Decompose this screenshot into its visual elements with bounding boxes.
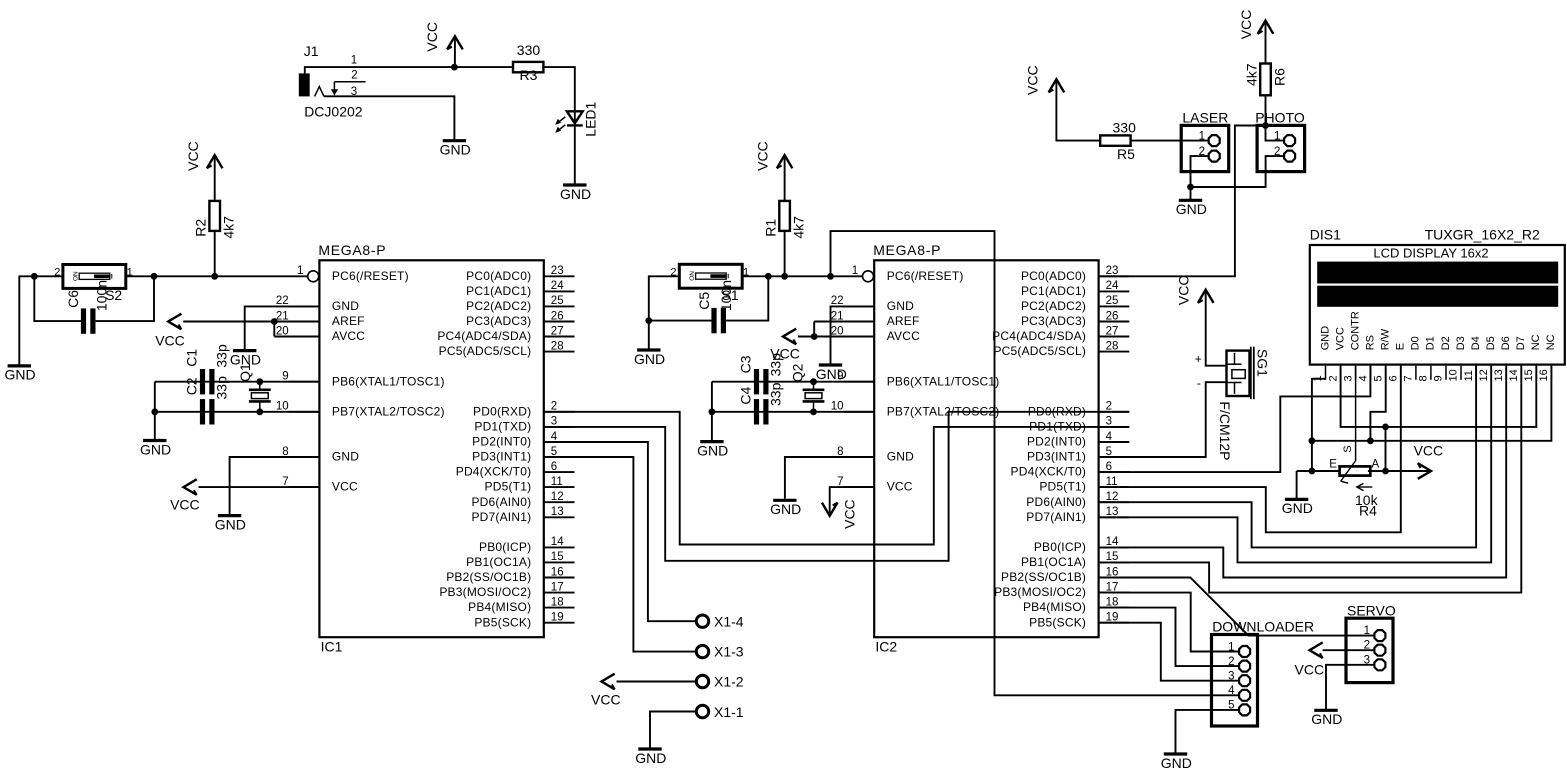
svg-text:R5: R5 [1117,146,1135,162]
IC2 pin 1 PC6(/RESET) (inverted reset pin) [859,275,863,277]
wire LASER pin2 net to PHOTO pin2 [1191,156,1284,187]
svg-text:VCC: VCC [591,691,621,707]
wire IC2 PB2 SS (pin16) diagonal to SERVO pin1 [1099,578,1374,636]
wire IC2 AVCC (pin20) to VCC arrow [798,336,874,338]
wire junction to C5 [649,320,713,322]
svg-text:GND: GND [1311,711,1342,727]
svg-text:PD2(INT0): PD2(INT0) [472,435,531,449]
svg-text:PD1(TXD): PD1(TXD) [1029,420,1086,434]
svg-text:AVCC: AVCC [332,329,365,343]
wire IC1 PD1 to IC2 PD0 (crossover) [544,412,1130,561]
connector DOWNLOADER body [1212,635,1258,727]
node RESET1 junction at R2 [211,273,218,280]
svg-text:DOWNLOADER: DOWNLOADER [1212,619,1314,635]
DOWNLOADER pin 3 [1212,680,1239,682]
svg-text:1: 1 [1199,131,1205,143]
svg-text:DIS1: DIS1 [1310,227,1341,243]
svg-text:19: 19 [551,612,564,624]
IC2 pin 10 PB7(XTAL2/TOSC2) [844,411,875,413]
svg-text:20: 20 [831,325,844,337]
IC1 pin 12 PD6(AIN0) [544,501,575,503]
svg-text:X1-1: X1-1 [714,704,744,720]
DIS1 pin 5 R/W [1385,366,1387,380]
svg-text:ON: ON [72,271,79,281]
svg-text:PD3(INT1): PD3(INT1) [472,450,531,464]
svg-text:22: 22 [831,295,844,307]
resistor R1 4k7 [779,201,790,231]
wire GND net H2: pin1/pin5/pin16 [1312,366,1552,441]
IC1 pin 2 PD0(RXD) [544,411,575,413]
svg-text:23: 23 [551,265,564,277]
IC2 pin 8 GND [844,456,875,458]
svg-text:C1: C1 [183,349,199,367]
node junction R6/PHOTO pin1/ADC wire [1262,122,1269,129]
svg-text:PB4(MISO): PB4(MISO) [1023,600,1086,614]
svg-text:TUXGR_16X2_R2: TUXGR_16X2_R2 [1425,227,1540,243]
svg-text:7: 7 [837,476,843,488]
IC1 pin 23 PC0(ADC0) [544,275,575,277]
power symbol VCC above R2 [207,155,223,168]
svg-text:15: 15 [1523,369,1535,381]
wire VCC to R2 [214,158,216,201]
wire junction to GND [19,276,34,366]
svg-text:4k7: 4k7 [221,216,237,239]
DIS1 pin 11 D4 [1475,366,1477,380]
IC2 pin 23 PC0(ADC0) [1099,275,1130,277]
svg-text:PC2(ADC2): PC2(ADC2) [466,299,531,313]
svg-text:10: 10 [1448,369,1460,381]
svg-text:4: 4 [1106,431,1113,443]
svg-text:28: 28 [551,340,564,352]
svg-text:R6: R6 [1272,68,1288,86]
wire IC2 PD6 (pin12) to LCD D4 [1099,366,1477,548]
IC2 pin 14 PB0(ICP) [1099,546,1130,548]
DOWNLOADER pin 1 [1212,651,1239,653]
svg-text:VCC: VCC [1295,662,1325,678]
svg-text:VCC: VCC [842,499,858,529]
svg-text:DCJ0202: DCJ0202 [304,104,363,120]
svg-text:PD4(XCK/T0): PD4(XCK/T0) [1011,465,1087,479]
svg-text:PB0(ICP): PB0(ICP) [479,540,531,554]
svg-text:2: 2 [1327,375,1339,381]
svg-text:11: 11 [551,476,563,488]
svg-text:6: 6 [1388,375,1400,381]
wire IC2 PD5 (pin11) to LCD E [1099,366,1401,533]
svg-text:C3: C3 [737,355,753,373]
svg-text:13: 13 [551,506,564,518]
svg-text:GND: GND [697,442,728,458]
ground GND at IC2 pin22 [819,363,842,366]
DIS1 pin 9 D2 [1445,366,1447,380]
DOWNLOADER pin 4 [1212,694,1239,696]
svg-text:33p: 33p [213,344,229,368]
J1 switch contact symbol [315,87,324,97]
svg-text:PC5(ADC5/SCL): PC5(ADC5/SCL) [439,344,532,358]
svg-text:27: 27 [551,325,564,337]
svg-text:5: 5 [1372,375,1384,381]
svg-text:24: 24 [551,280,564,292]
svg-text:GND: GND [770,501,801,517]
DIS1 pin 8 D1 [1430,366,1432,380]
crystal Q1 [249,388,271,391]
ground GND below LASER [1179,199,1202,202]
IC2 pin 4 PD2(INT0) [1099,441,1130,443]
svg-text:GND: GND [1161,755,1192,771]
svg-text:4: 4 [1357,375,1369,381]
svg-text:C5: C5 [696,292,712,310]
svg-text:IC2: IC2 [875,639,897,655]
svg-text:X1-2: X1-2 [714,674,744,690]
svg-text:9: 9 [282,371,288,383]
power symbol VCC (top, above J1 node) [447,36,463,49]
svg-text:NC: NC [1530,334,1542,350]
node junction AREF/AVCC IC1 [271,318,278,325]
wire IC1 pin8 GND [230,457,320,514]
IC1 pin 20 AVCC [289,336,320,338]
wire IC1 AVCC (pin20) to AREF net [274,336,319,338]
power symbol VCC (left arrow at IC1 pin7) [184,479,197,495]
node junction C2 row [151,408,158,415]
wire C3/C4 common node down to GND [711,382,713,442]
IC2 pin 2 PD0(RXD) [1099,411,1130,413]
ground GND below S1 pin2 [637,348,660,351]
IC1 pin 26 PC3(ADC3) [544,321,575,323]
svg-text:VCC: VCC [332,480,358,494]
svg-text:D3: D3 [1455,336,1467,350]
svg-text:SG1: SG1 [1255,349,1271,377]
DIS1 black display row 2 [1317,286,1558,307]
svg-text:IC1: IC1 [321,639,343,655]
svg-text:1: 1 [743,267,749,279]
svg-text:VCC: VCC [1238,10,1254,40]
svg-text:12: 12 [551,491,564,503]
wire S2 pin2 to GND branch [34,275,63,277]
svg-text:26: 26 [1106,310,1119,322]
svg-text:PC0(ADC0): PC0(ADC0) [1021,269,1086,283]
wire IC1 pin7 VCC [199,486,320,488]
svg-text:19: 19 [1106,612,1119,624]
svg-text:X1-3: X1-3 [714,644,744,660]
svg-text:14: 14 [1508,369,1520,381]
svg-text:100n: 100n [93,280,109,311]
IC2 pin 26 PC3(ADC3) [1099,321,1130,323]
power symbol VCC (left arrow at IC1 AREF) [168,314,181,330]
svg-text:33p: 33p [213,376,229,400]
svg-text:PB2(SS/OC1B): PB2(SS/OC1B) [1001,570,1086,584]
svg-text:D0: D0 [1410,336,1422,350]
svg-text:E: E [1329,459,1337,471]
svg-text:R2: R2 [193,219,209,237]
svg-text:PC3(ADC3): PC3(ADC3) [1021,314,1086,328]
svg-text:RS: RS [1365,335,1377,350]
power symbol VCC above R5 [1049,79,1065,92]
wire junction to GND [1190,187,1192,200]
svg-text:26: 26 [551,310,564,322]
svg-text:PD3(INT1): PD3(INT1) [1027,450,1086,464]
wire X1-2 to VCC arrow [617,681,697,683]
svg-text:LASER: LASER [1182,110,1228,126]
SERVO pin 1 [1346,635,1374,637]
wire IC2 PD3 (pin5) to SG1 minus [1099,382,1227,457]
svg-text:PD4(XCK/T0): PD4(XCK/T0) [456,465,532,479]
buzzer SG1 body [1227,351,1250,396]
svg-text:LED1: LED1 [583,101,599,136]
svg-text:33p: 33p [767,353,783,377]
wire VCC to R1 [784,158,786,201]
svg-text:8: 8 [1418,375,1430,381]
svg-text:PD1(TXD): PD1(TXD) [474,420,531,434]
ground GND at pot E [1296,471,1298,499]
display DIS1 body [1310,245,1565,365]
svg-text:F/CM12P: F/CM12P [1217,401,1233,460]
IC2 pin 16 PB2(SS/OC1B) [1099,577,1130,579]
svg-text:D4: D4 [1470,336,1482,350]
node RESET2 junction at C5 branch [765,273,772,280]
wire R6 to PHOTO pin1 [1266,95,1284,140]
pad X1-1 [696,705,708,717]
SERVO pin 3 [1346,664,1374,666]
wire IC2 PB1 (pin15) to LCD D7 [1099,366,1522,593]
IC1 pin 6 PD4(XCK/T0) [544,471,575,473]
svg-text:VCC: VCC [887,480,913,494]
svg-text:15: 15 [1106,551,1119,563]
wire IC2 PB5 SCK (pin19) to DOWNLOADER pin3 [1099,623,1239,681]
svg-text:13: 13 [1493,369,1505,381]
IC IC2 MEGA8-P body [874,260,1098,637]
capacitor C5 100n [711,308,716,333]
svg-text:33p: 33p [767,382,783,406]
svg-text:3: 3 [1342,375,1354,381]
svg-text:12: 12 [1106,491,1119,503]
svg-text:-: - [1197,376,1201,390]
svg-text:10: 10 [831,401,844,413]
node VCC junction at J1/R3 [451,64,458,71]
wire C5 to S1 pin1 net [726,276,768,320]
IC1 pin 18 PB4(MISO) [544,607,575,609]
DIS1 pin 3 CONTR [1355,366,1357,380]
svg-text:4k7: 4k7 [1244,63,1260,86]
wire pot A to VCC arrow [1368,470,1429,472]
svg-text:4: 4 [1228,685,1235,697]
svg-text:D7: D7 [1515,336,1527,350]
IC2 pin 3 PD1(TXD) [1099,426,1130,428]
svg-text:330: 330 [1113,120,1137,136]
IC1 pin 16 PB2(SS/OC1B) [544,577,575,579]
diode LED1 [567,111,583,123]
IC1 pin 9 PB6(XTAL1/TOSC1) [289,381,320,383]
node junction C5/GND [645,317,652,324]
wire IC2 PB3 MOSI (pin17) to DOWNLOADER pin1 [1099,593,1239,652]
wire IC2 PD7 (pin13) to LCD D5 [1099,366,1492,563]
IC2 pin 12 PD6(AIN0) [1099,501,1130,503]
wire IC2 AREF (pin21) [814,321,874,323]
ground GND below C3/C4 [700,440,723,443]
capacitor C2 33p [200,399,205,424]
DIS1 pin 1 GND [1325,366,1327,380]
svg-text:AREF: AREF [887,314,920,328]
svg-text:D5: D5 [1485,336,1497,350]
svg-text:2: 2 [1106,401,1112,413]
wire IC2 pin7 VCC [830,487,875,513]
svg-text:PB1(OC1A): PB1(OC1A) [466,555,531,569]
node RESET2 junction at R1 [781,273,788,280]
wire DOWNLOADER pin5 to GND [1176,710,1239,754]
IC1 pin 27 PC4(ADC4/SDA) [544,336,575,338]
svg-text:28: 28 [1106,340,1119,352]
svg-text:D1: D1 [1425,336,1437,350]
capacitor C3 33p [754,369,759,394]
svg-text:8: 8 [837,446,843,458]
IC1 pin 24 PC1(ADC1) [544,290,575,292]
IC1 pin 10 PB7(XTAL2/TOSC2) [289,411,320,413]
power symbol VCC (down arrow at IC2 pin7) [822,503,838,516]
svg-text:NC: NC [1545,334,1557,350]
switch S2 body [63,265,126,289]
svg-text:330: 330 [517,42,541,58]
svg-text:VCC: VCC [424,22,440,52]
svg-text:3: 3 [1228,671,1234,683]
IC2 pin 13 PD7(AIN1) [1099,516,1130,518]
svg-text:GND: GND [887,450,914,464]
wire R1 to IC2 reset net [784,231,786,276]
wire SG1 plus to VCC [1206,292,1227,366]
svg-text:2: 2 [1228,656,1234,668]
svg-text:PC5(ADC5/SCL): PC5(ADC5/SCL) [993,344,1086,358]
svg-text:PD0(RXD): PD0(RXD) [473,404,531,418]
svg-text:16: 16 [1538,369,1550,381]
power symbol VCC above SG1 [1198,290,1214,303]
node junction Q1 top [256,378,263,385]
svg-text:5: 5 [551,446,557,458]
wire IC2 XTAL2 row (pin10) to C4/Q2 [712,411,874,413]
svg-text:14: 14 [1106,536,1119,548]
svg-text:GND: GND [140,441,171,457]
svg-text:16: 16 [551,566,564,578]
wire VCC to R6 [1265,23,1267,63]
IC2 pin 5 PD3(INT1) [1099,456,1130,458]
IC2 pin 28 PC5(ADC5/SCL) [1099,351,1130,353]
connector LASER body [1181,125,1229,171]
svg-text:R4: R4 [1359,503,1377,519]
node RESET2 junction at downloader branch [827,273,834,280]
IC1 pin 8 GND [289,456,320,458]
IC1 pin 25 PC2(ADC2) [544,305,575,307]
wire DIS1 pin3 CONTR to pot wiper [1355,366,1357,461]
node junction S2 pin2 / GND / C6 [31,273,38,280]
IC2 pin 25 PC2(ADC2) [1099,305,1130,307]
svg-text:18: 18 [1106,596,1119,608]
node junction H2 at R/W drop [1367,437,1374,444]
svg-text:A: A [1372,459,1380,471]
svg-text:GND: GND [1282,500,1313,516]
svg-text:15: 15 [551,551,564,563]
DIS1 pin 15 NC [1535,366,1537,380]
ground GND below J1 pin3 [443,139,466,142]
svg-text:PC4(ADC4/SDA): PC4(ADC4/SDA) [437,329,531,343]
svg-text:1: 1 [852,265,858,277]
svg-text:C4: C4 [737,386,753,404]
svg-text:7: 7 [282,476,288,488]
svg-text:2: 2 [551,401,557,413]
svg-text:2: 2 [351,69,357,81]
svg-text:14: 14 [551,536,564,548]
svg-text:4: 4 [551,431,558,443]
svg-text:24: 24 [1106,280,1119,292]
SERVO pin 2 [1346,649,1374,651]
wire SERVO pin2 to VCC arrow [1323,649,1374,651]
svg-text:1: 1 [1274,131,1280,143]
IC2 pin 11 PD5(T1) [1099,486,1130,488]
svg-text:PB2(SS/OC1B): PB2(SS/OC1B) [446,570,531,584]
connector J1 DCJ0202 power jack body [299,73,310,96]
switch S1 body [679,264,742,288]
capacitor C4 33p [754,399,759,424]
svg-text:PD7(AIN1): PD7(AIN1) [1026,510,1086,524]
IC2 pin 24 PC1(ADC1) [1099,290,1130,292]
node junction H1 at pot A drop [1382,424,1389,431]
power symbol VCC above R1 [777,155,793,168]
ground GND below S2 pin2 [8,364,31,367]
IC2 pin 6 PD4(XCK/T0) [1099,471,1130,473]
svg-text:PD6(AIN0): PD6(AIN0) [1026,495,1086,509]
wire J1 pin3 to GND [324,96,454,140]
ground GND below DOWNLOADER [1164,752,1187,755]
svg-text:Q1: Q1 [237,363,253,382]
DIS1 pin 7 D0 [1415,366,1417,380]
DIS1 pin 13 D6 [1505,366,1507,380]
svg-text:16: 16 [1106,566,1119,578]
svg-text:PC2(ADC2): PC2(ADC2) [1021,299,1086,313]
IC1 pin 3 PD1(TXD) [544,426,575,428]
IC1 pin 11 PD5(T1) [544,486,575,488]
DIS1 pin 14 D7 [1520,366,1522,380]
svg-text:Q2: Q2 [789,363,805,382]
wire IC2 reset over-the-top to DOWNLOADER pin 4 [831,231,1239,695]
wire IC1 AREF (pin21) to VCC arrow [183,321,319,323]
svg-text:VCC: VCC [1414,443,1444,459]
wire IC1 PD0 to IC2 PD1 (crossover) [544,412,1130,545]
svg-text:AVCC: AVCC [887,329,920,343]
ground GND below C1/C2 [143,439,166,442]
svg-text:100n: 100n [718,280,734,311]
wire PHOTO pin1 net to IC2 PC0(ADC0) [1099,126,1266,277]
IC1 pin 21 AREF [289,321,320,323]
crystal Q2 [803,388,825,391]
svg-text:2: 2 [1274,146,1280,158]
svg-text:4k7: 4k7 [790,216,806,239]
svg-text:MEGA8-P: MEGA8-P [318,242,386,258]
svg-text:25: 25 [1106,295,1119,307]
svg-text:PC1(ADC1): PC1(ADC1) [466,284,531,298]
pad X1-4 [696,615,708,627]
svg-text:PB7(XTAL2/TOSC2): PB7(XTAL2/TOSC2) [887,404,1000,418]
svg-text:ON: ON [689,271,696,281]
svg-text:8: 8 [282,446,288,458]
wire J1 pin1 to VCC node and R3 [305,67,513,73]
power symbol VCC (left arrow at SERVO pin2) [1310,642,1323,658]
svg-text:S: S [1342,445,1354,452]
svg-text:1: 1 [1364,625,1370,637]
svg-text:PD5(T1): PD5(T1) [1039,480,1086,494]
wire VCC net H1: pin2/pin15 [1341,366,1537,427]
svg-text:23: 23 [1106,265,1119,277]
wire IC2 PB4 MISO (pin18) to DOWNLOADER pin2 [1099,608,1239,667]
DOWNLOADER pin 5 [1212,709,1239,711]
capacitor C1 33p [200,369,205,394]
svg-text:PD5(T1): PD5(T1) [485,480,532,494]
wire VCC down and to R5 [1056,82,1100,141]
svg-text:PB5(SCK): PB5(SCK) [474,615,531,629]
